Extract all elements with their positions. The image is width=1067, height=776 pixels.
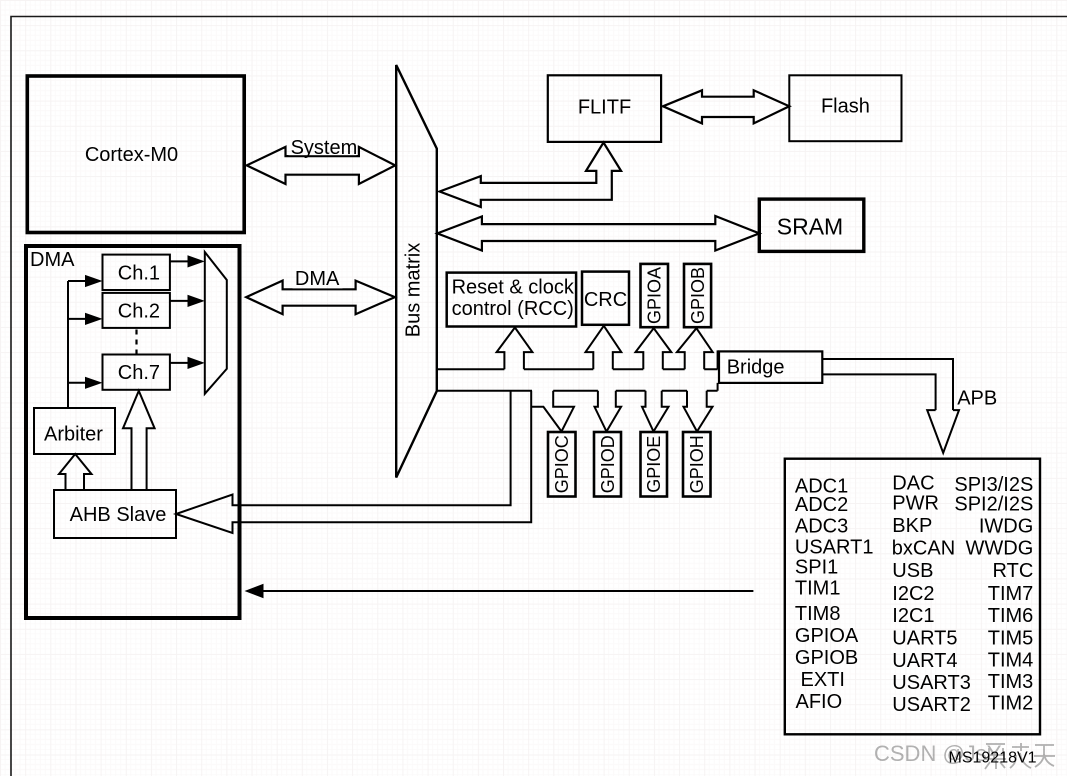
Flash box <box>789 75 901 141</box>
CRC box <box>582 272 629 325</box>
channel Ch.2 <box>103 293 170 328</box>
arrow bus matrix to SRAM (double headed) <box>437 216 759 251</box>
dashed line between Ch.2 and Ch.7 <box>135 330 137 354</box>
arrow bus to GPIOA (hollow up) <box>636 328 672 369</box>
arrow System (Cortex to bus matrix, double headed) <box>247 147 396 184</box>
arrow system bus into AHB Slave (hollow left, shafts to APB line) <box>176 391 531 533</box>
arrow bus to GPIOC (hollow down) <box>532 391 574 432</box>
arrow DMA (DMA to bus matrix, double headed) <box>246 281 395 315</box>
wire Ch.7 to DMA mux <box>170 362 189 364</box>
arrow FLITF to Flash (double headed) <box>663 90 789 123</box>
AHB bus line 1 <box>437 350 718 369</box>
SRAM box <box>759 199 864 251</box>
channel Ch.7 <box>103 355 170 390</box>
GPIOH box <box>683 432 711 497</box>
APB peripherals box <box>785 459 1040 735</box>
arrow bus to CRC (hollow up) <box>586 326 622 369</box>
GPIOE box <box>641 432 668 497</box>
node arrowhead into Ch.2 <box>85 313 103 325</box>
arrow bus to GPIOE (hollow down) <box>642 391 669 432</box>
arrow bus matrix to FLITF (hollow L with two heads) <box>440 143 621 208</box>
FLITF box <box>548 75 661 142</box>
arrow AHB Slave to Arbiter (hollow up) <box>59 454 92 490</box>
APB bus line 2 <box>437 383 718 391</box>
arrow AHB Slave to Ch.7 (hollow up) <box>123 391 155 490</box>
AHB Slave box <box>54 490 176 538</box>
GPIOB box <box>684 264 711 327</box>
GPIOC box <box>548 432 576 497</box>
GPIOA box <box>641 264 669 327</box>
DMA box <box>26 246 240 618</box>
channel Ch.1 <box>103 255 170 290</box>
wire Ch.2 to DMA mux <box>170 300 189 302</box>
Bridge box <box>719 351 822 383</box>
DMA internal mux trapezoid <box>205 252 227 394</box>
arrow bus to RCC (hollow up) <box>497 328 533 370</box>
arrow bus to GPIOD (hollow down) <box>595 391 622 432</box>
node arrowhead into DMA box <box>245 584 264 599</box>
wire Arbiter to channels feeder <box>68 281 86 408</box>
GPIOD box <box>594 432 621 497</box>
wire Bridge to APB (two lines right then down) <box>822 359 953 410</box>
bus matrix <box>396 65 437 478</box>
Arbiter box <box>34 408 115 454</box>
Cortex-M0 box <box>27 76 244 233</box>
arrow bus to GPIOH (hollow down) <box>684 391 713 432</box>
wire Ch.1 to DMA mux <box>170 260 189 262</box>
Reset & clock control (RCC) box <box>447 273 576 327</box>
node arrowhead into Ch.1 <box>85 275 103 287</box>
wire peripherals DMA request into DMA box <box>262 590 753 592</box>
arrow bus to GPIOB (hollow up) <box>677 328 713 369</box>
watermark CJK glyphs <box>985 743 1055 769</box>
node arrowhead into Ch.7 <box>85 377 103 389</box>
arrow APB down head <box>927 410 959 453</box>
